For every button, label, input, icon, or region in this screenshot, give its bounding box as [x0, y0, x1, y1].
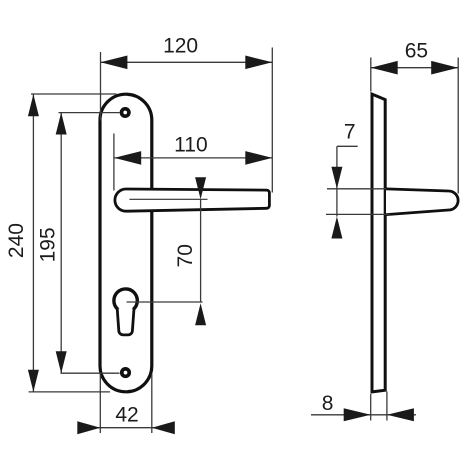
top screw hole — [122, 109, 129, 116]
dim 65 extension line right — [457, 58, 459, 194]
dim 65 label — [405, 40, 428, 63]
dim 65 extension line left — [370, 58, 372, 92]
dim 240 line — [32, 94, 34, 392]
dim 195 arrow up — [56, 113, 67, 135]
dim 240 extension line top — [31, 93, 117, 95]
dim 120 line — [100, 61, 272, 63]
dim 42 line — [78, 427, 174, 429]
dim 120 arrow left — [100, 56, 127, 70]
dim 65 arrow right — [431, 61, 458, 75]
dim 195 arrow down — [56, 351, 67, 373]
dim 110 arrow right — [245, 151, 272, 165]
dim 42 label — [115, 404, 138, 427]
dim 120 extension line left — [100, 52, 102, 121]
dim 195 extension line top — [59, 112, 120, 114]
dim 8 arrow pointing left — [387, 408, 414, 421]
dim 70 arrow down (above handle axis) — [195, 177, 206, 199]
lever handle side view — [386, 189, 458, 215]
dim 7 leader line — [337, 145, 358, 147]
dim 65 arrow left — [371, 61, 398, 75]
dim 110 arrow left — [114, 151, 141, 165]
svg-text:65: 65 — [405, 40, 428, 63]
dim 7 vertical line — [336, 146, 338, 216]
dim 42 extension line left — [99, 374, 101, 433]
dim 42 arrow pointing left — [152, 421, 175, 434]
front backplate outline — [100, 94, 152, 392]
bottom screw hole — [122, 369, 129, 376]
dim 110 label — [174, 133, 207, 156]
svg-text:70: 70 — [174, 244, 197, 267]
dim 7 extension line top — [327, 188, 386, 190]
dim 195 label — [36, 227, 59, 262]
dim 120 label — [163, 34, 198, 57]
dim 70 extension line from cylinder centre — [127, 301, 203, 303]
svg-text:240: 240 — [5, 223, 28, 258]
dim 70 label — [174, 244, 197, 267]
dim 8 label — [322, 392, 334, 415]
dim 70 arrow up (below cylinder line) — [195, 303, 206, 325]
dim 70 line — [200, 199, 202, 302]
dim 42 extension line right — [151, 374, 153, 433]
dim 120/110 extension line right — [271, 48, 273, 193]
side plate profile — [372, 94, 385, 392]
dim 8 extension line left — [370, 394, 372, 421]
svg-text:42: 42 — [115, 404, 138, 427]
svg-text:195: 195 — [36, 227, 59, 262]
dim 8 extension line right — [386, 392, 388, 421]
svg-text:120: 120 — [163, 34, 198, 57]
dim 65 line — [371, 67, 459, 69]
dim 8 line — [311, 414, 416, 416]
lever handle front view — [115, 189, 270, 211]
dim 7 arrow up — [331, 217, 342, 239]
dim 240 extension line bottom — [29, 391, 110, 393]
euro cylinder keyhole stem — [117, 309, 134, 335]
dim 8 arrow pointing right — [344, 408, 371, 421]
dim 195 extension line bottom — [61, 372, 120, 374]
euro cylinder keyhole circle — [114, 289, 137, 312]
handle inner detail line — [129, 198, 207, 200]
svg-text:8: 8 — [322, 392, 334, 415]
dim 240 arrow up — [28, 94, 39, 116]
dim 7 extension line bottom — [326, 213, 390, 215]
dim 7 label — [344, 121, 356, 144]
dim 240 arrow down — [28, 370, 39, 392]
svg-text:7: 7 — [344, 121, 356, 144]
dim 195 line — [60, 113, 62, 374]
dim 7 arrow down — [331, 167, 342, 189]
dim 240 label — [5, 223, 28, 258]
svg-text:110: 110 — [174, 133, 207, 156]
dim 110 extension line left — [113, 134, 115, 191]
dim 42 arrow pointing right — [77, 421, 100, 434]
dim 110 line — [114, 157, 272, 159]
dim 120 arrow right — [245, 56, 272, 70]
